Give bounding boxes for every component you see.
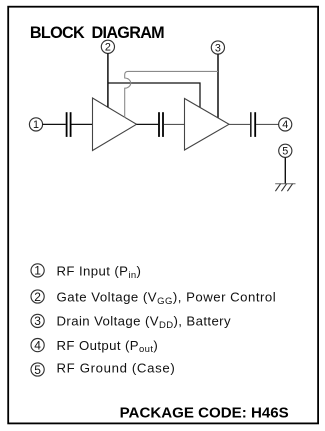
wire C3 to pin4 xyxy=(256,123,279,125)
svg-text:3: 3 xyxy=(34,314,41,328)
svg-text:2: 2 xyxy=(105,42,111,54)
svg-text:5: 5 xyxy=(282,146,288,158)
svg-text:2: 2 xyxy=(34,290,41,304)
wire pin2 down to A1 gate xyxy=(107,53,109,107)
capacitor C2 xyxy=(159,112,163,137)
pin 3 (drain voltage VDD) xyxy=(211,41,224,54)
legend pin 1: RF Input xyxy=(31,264,141,281)
pin 5 (RF ground) xyxy=(279,144,292,157)
legend pin 3: Drain Voltage xyxy=(31,314,231,331)
wire VGG net to A2 gate xyxy=(108,83,200,108)
svg-text:4: 4 xyxy=(282,119,288,131)
svg-text:Drain Voltage (VDD), Battery: Drain Voltage (VDD), Battery xyxy=(57,314,231,331)
capacitor C3 xyxy=(251,112,255,137)
wire C1 to amplifier A1 input xyxy=(72,123,93,125)
legend pin 2: Gate Voltage xyxy=(31,290,276,307)
wire pin5 to ground xyxy=(284,158,286,184)
amplifier A1 (first stage) xyxy=(93,98,137,151)
wire A2 output to C3 xyxy=(229,123,250,125)
wire pin1 to C1 xyxy=(42,123,66,125)
svg-text:4: 4 xyxy=(34,338,41,352)
wire C2 to A2 input xyxy=(164,123,185,125)
capacitor C1 xyxy=(67,112,71,137)
svg-text:5: 5 xyxy=(34,363,41,377)
pin 4 (RF output) xyxy=(279,118,292,131)
legend pin 4: RF Output xyxy=(31,338,158,355)
pin 1 (RF input) xyxy=(29,118,42,131)
wire pin3 down to A2 drain xyxy=(217,54,219,118)
svg-text:1: 1 xyxy=(33,119,39,131)
svg-text:BLOCK DIAGRAM: BLOCK DIAGRAM xyxy=(30,24,164,42)
svg-text:RF Ground (Case): RF Ground (Case) xyxy=(57,361,176,376)
pin 2 (gate voltage VGG) xyxy=(101,40,114,53)
wire VDD net to A1 drain with hop over VGG wire xyxy=(125,71,218,117)
svg-text:3: 3 xyxy=(215,42,221,54)
wire A1 output to C2 xyxy=(137,123,159,125)
ground symbol (case) xyxy=(275,184,295,192)
amplifier A2 (second stage) xyxy=(185,99,230,151)
legend pin 5: RF Ground xyxy=(31,361,175,377)
svg-text:1: 1 xyxy=(34,264,41,278)
svg-text:PACKAGE CODE: H46S: PACKAGE CODE: H46S xyxy=(120,405,289,422)
